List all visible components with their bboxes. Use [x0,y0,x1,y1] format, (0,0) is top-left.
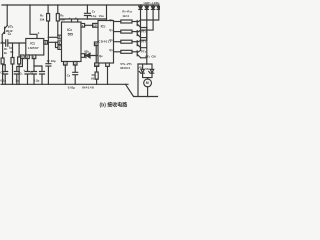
resistor R5 [95,72,98,79]
wire 555 pin2 to C8 [73,65,78,84]
capacitor C3 [3,65,8,85]
junction node (75.2,84.3) [74,84,76,86]
capacitor C2 0.1u decoupling [84,5,90,19]
junction node (106.5,5) [106,4,108,6]
junction node (27.5,84.3) [27,84,29,86]
wire R pin down through junction to R5 [95,46,97,63]
IC1 LM567 tone decoder box [26,39,44,56]
wire 555 out to CP [85,24,93,26]
wire bottom ground rail [1,83,128,85]
svg-text:CN: CN [151,54,155,58]
junction node (19.1,84.3) [18,84,20,86]
CD4017 Vss pin square [106,63,110,66]
wire R7 to VT2 base [132,21,137,23]
junction node (7.2,5) [6,4,8,6]
wire Q0 row [114,21,121,23]
CD4017 GND pin square [95,63,99,66]
transistor VT4 [137,40,141,48]
CD4017 CP pin square [93,23,98,27]
resistor R1 [2,43,4,58]
wire emitter bus [141,28,147,65]
svg-text:+: + [2,39,4,43]
svg-text:2.2µ: 2.2µ [34,78,40,82]
junction node (57.8,5) [57,4,59,6]
transistor VT5 [137,50,141,58]
wire LM567 pin5 to C6 [32,59,37,85]
wire Q2 row [114,41,121,43]
wire gate feed [137,64,139,97]
junction node (48.4,37.3) [48,37,50,39]
svg-text:C6: C6 [30,72,33,75]
wire to diode VD3 [85,55,98,57]
svg-text:0.01µ: 0.01µ [68,85,76,89]
LED LED2 [145,5,148,9]
svg-text:+: + [23,68,25,72]
svg-text:15k: 15k [40,18,45,22]
wire pin8 to pin6 [47,41,58,43]
junction node (153.1,5) [152,4,154,6]
wire pin6 to pin7 [56,42,58,47]
svg-text:IN4148: IN4148 [82,85,94,89]
junction node (16.8,84.3) [16,84,18,86]
wire Q3 row [114,51,121,53]
resistor R6 [18,43,20,57]
wire LED4 to VT2 collector [141,9,159,20]
thyristor VS1 [139,69,144,73]
CD4017 R pin square [94,42,98,46]
svg-text:91k: 91k [91,77,96,81]
svg-text:LED1~LED4: LED1~LED4 [144,1,160,5]
svg-text:LM567: LM567 [28,46,39,50]
svg-text:IC1: IC1 [30,41,35,45]
wire R4 to 555 pin3 [57,21,59,35]
svg-text:20k: 20k [60,18,65,22]
junction node (87.4,5) [87,4,89,6]
junction node (140.5,5) [140,4,142,6]
wire GND to R5 [96,66,98,72]
wire SCR cathodes to motor [143,73,152,79]
wire CD4017 Vss to ground [107,66,109,84]
wire R3 down to C7 [47,21,49,64]
wire R10 to VT5 base [132,51,137,53]
junction node (34,84.3) [33,84,35,86]
resistor R2 [12,43,14,58]
wire LM567 pin2 to C5 [25,59,30,85]
wire top supply rail [2,4,159,6]
svg-text:R: R [95,42,97,46]
wire junction to pin3 [48,36,58,38]
IC3 CD4017 counter box [98,21,114,64]
LED LED1 [139,5,142,9]
resistor R9 [121,40,132,43]
wire 555 pin1 to ground [64,65,66,84]
junction node (48.4,42.3) [48,42,50,44]
svg-text:C5: C5 [20,72,23,75]
wire Q1 row [114,31,121,33]
junction node (48.1,5) [47,4,49,6]
wire VT1 emitter drop [6,5,8,26]
svg-text:1µ: 1µ [15,78,19,82]
svg-text:1k×4: 1k×4 [122,14,129,18]
LED LED3 [151,5,154,9]
svg-text:IC3: IC3 [101,24,106,28]
IC2 555 timer box [62,22,82,62]
resistor R4 [57,5,59,14]
wire LED1 to VT5 collector [140,9,142,50]
junction node (107.5,84.3) [107,84,109,86]
junction node (65.3,84.3) [65,84,67,86]
junction node (12.5,84.3) [12,84,14,86]
svg-text:0.1µ: 0.1µ [91,14,97,18]
junction node (2.6,84.3) [2,84,4,86]
junction node (42,84.3) [41,84,43,86]
svg-text:555: 555 [68,32,74,36]
wire SCR anode feed [138,64,152,69]
svg-text:C7 10µ: C7 10µ [47,59,56,63]
wire 555 pin4 stub [71,19,73,22]
capacitor C7 10u [46,64,51,85]
wire Vcc distribution y19 [60,18,107,20]
svg-text:9013×4: 9013×4 [120,66,130,70]
wire 555 pin8 stub [77,19,79,22]
transistor VT2 [137,20,141,28]
wire motor to lower rail [147,87,149,97]
svg-text:1µ: 1µ [9,46,13,50]
svg-text:(b) 接收电路: (b) 接收电路 [100,101,129,108]
555 right pin square lower [81,54,85,58]
wire LED2 to VT4 collector [141,9,147,40]
resistor R3 [47,5,49,14]
LM567 bottom pin squares [21,55,25,59]
resistor R7 [121,20,132,23]
junction node (146.8,64) [146,63,148,65]
555 pin squares 3 6 7 [58,35,62,39]
svg-text:CP: CP [93,24,97,28]
svg-text:M: M [146,81,149,85]
wire LED3 to VT3 collector [141,9,153,30]
wire LM567 pin1 to C4 [14,59,22,85]
555 bottom pin squares [64,62,68,66]
555 right pin square top [81,24,85,28]
LM567 pin 8 square [44,41,48,45]
junction node (146.8,5) [146,4,148,6]
wire Vdd drop [106,5,108,21]
wire R8 to VT3 base [132,31,137,33]
junction node (147.6,96.5) [147,96,149,98]
transistor VT3 [137,30,141,37]
svg-text:C1: C1 [8,32,12,36]
svg-text:0.1µ: 0.1µ [0,78,6,82]
svg-text:1k: 1k [4,51,8,55]
diode VD3 [86,53,90,58]
junction node (48.4,84.3) [48,84,50,86]
capacitor C9 [34,66,45,84]
wire lower-right rail step [126,84,158,96]
LED LED4 [157,5,160,9]
wire R9 to VT4 base [132,41,137,43]
svg-text:GN: GN [95,65,99,67]
junction node (96.2,55.5) [95,55,97,57]
capacitor C1 [6,40,8,46]
svg-text:IC2: IC2 [67,28,72,32]
junction node (96.6,84.3) [96,84,98,86]
transistor VT1 [2,26,7,44]
thyristor VS2 [149,69,154,73]
wire LM567 pin4 feed [30,5,37,39]
junction node (30,5) [29,4,31,6]
wire input line with C1 [1,42,26,44]
junction node (5.2,84.3) [4,84,6,86]
resistor R8 [121,30,132,33]
motor M [144,79,152,87]
resistor R10 [121,50,132,53]
